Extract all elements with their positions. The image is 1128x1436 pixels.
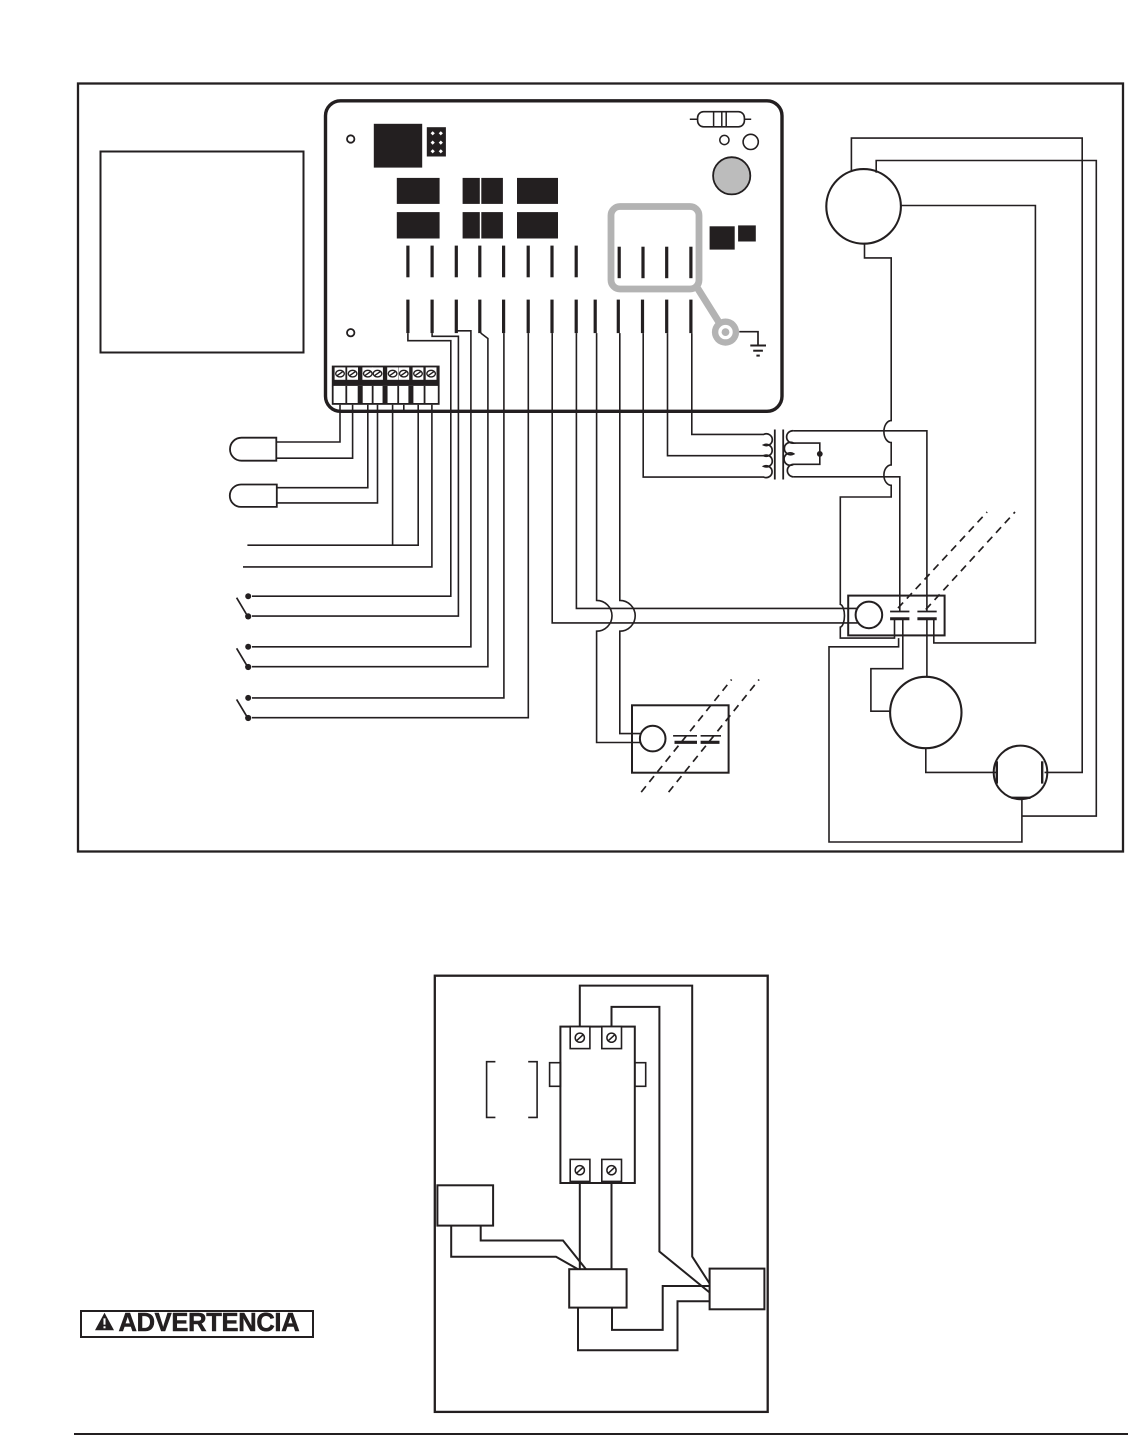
relay K2 block pair row A	[463, 178, 503, 204]
wire contactor top-left up and over to power box	[580, 986, 710, 1284]
wire terminal1 to flame-sensor lead 1 upper	[277, 405, 341, 442]
wire pin8 column to valve feed upper	[576, 409, 856, 608]
wire pin7 down	[551, 333, 553, 409]
limit switch S1 wires	[252, 409, 458, 616]
GV2 capacitor plates right	[701, 736, 721, 743]
wire pin13 to transformer primary top	[692, 409, 764, 434]
wire terminal8 long horizontal run	[243, 405, 432, 567]
wire pin11 down	[642, 333, 644, 409]
GV2 capacitor plates left	[673, 736, 697, 743]
wire terminal5 down to node	[392, 405, 394, 545]
ground symbol on board	[739, 332, 766, 356]
pin header row 1 (8 pins)	[408, 246, 576, 278]
wire terminal6 stub	[403, 405, 405, 413]
transformer T1 secondary winding	[784, 431, 794, 477]
wire pin12 to transformer primary middle	[668, 409, 765, 456]
relay K6 block row B	[517, 212, 558, 238]
IC chip right of window	[710, 226, 735, 249]
junction box lower-middle	[569, 1269, 626, 1307]
limit switch S2	[237, 644, 252, 670]
wire pin7 column to valve feed lower	[552, 409, 857, 623]
GV1 capacitor 2 plates	[917, 612, 936, 619]
contactor side tab left	[550, 1063, 561, 1087]
wire jog pin2 to switch column	[432, 333, 458, 409]
wire contactor bottom-right to junction box	[611, 1181, 613, 1269]
relay K1 block row A	[397, 178, 440, 204]
relay K4 block row B	[397, 212, 440, 238]
transformer T1 primary winding	[764, 434, 772, 478]
buzzer (gray filled circle)	[713, 157, 750, 194]
wire C1 bottom loop to GV1 node	[829, 638, 1022, 842]
transformer secondary tap loop with junction dot	[794, 443, 823, 464]
fuse F1	[690, 112, 751, 127]
wire pin8 down	[575, 333, 577, 409]
wire M1 bottom to valve capacitor 1 return (rail D with hops)	[840, 243, 894, 638]
wire junction box right to power box mid	[612, 1286, 710, 1330]
wire jog pin1 to switch column	[408, 333, 451, 409]
bracket marker right	[528, 1062, 537, 1118]
wire terminal2 to flame-sensor lead 1 lower	[277, 405, 353, 458]
GV1 actuator dashed linkage 2	[926, 512, 1015, 610]
limit switch S1	[237, 593, 252, 619]
wire M1 top-right to right rail B	[876, 161, 1096, 817]
LED indicator small circle	[720, 135, 729, 144]
mounting hole bottom-left	[347, 329, 354, 336]
wire junction box left to power box lower	[578, 1301, 710, 1350]
relay K3 block row A	[517, 178, 558, 204]
limit switch S3	[237, 695, 252, 721]
callout target circle	[712, 319, 739, 346]
connector J1 (black header with pin dots)	[427, 127, 446, 156]
wire GV1 capacitor1 to blower path	[871, 619, 903, 711]
transformer T1 core	[775, 430, 783, 480]
label box (blank legend area)	[101, 152, 304, 353]
GV2 actuator dashed linkage 1	[641, 680, 731, 793]
wire contactor top-right up and over to power box	[612, 1007, 710, 1293]
bullet connector flame sensor 2	[230, 485, 277, 507]
wire terminal4 to flame-sensor lead 2 lower	[277, 405, 378, 503]
IC U2 (large black square)	[374, 124, 422, 168]
GV2 coil circle	[640, 726, 666, 752]
limit switch S3 wires	[252, 409, 528, 718]
control board outline U1	[326, 101, 783, 412]
contactor terminal bottom-right	[602, 1159, 622, 1181]
wire contactor bottom-left to junction box	[579, 1181, 581, 1269]
page footer rule	[74, 1433, 1128, 1435]
callout handle (gray diagonal)	[697, 287, 725, 332]
GV1 actuator dashed linkage 1	[898, 512, 987, 608]
wire M2 bottom to run capacitor	[926, 748, 997, 772]
gas valve GV1 (unit valve) box	[848, 596, 944, 636]
wire jog pin4	[480, 331, 488, 409]
wire pin11 to transformer primary bottom	[643, 409, 764, 477]
gas valve GV2 (furnace valve) box	[632, 705, 729, 772]
contactor terminal top-left	[570, 1027, 590, 1049]
wire M1 right to rail C into valve capacitor 2 return	[900, 206, 1035, 643]
GV1 coil circle	[856, 602, 883, 629]
wire terminal3 to flame-sensor lead 2 upper	[277, 405, 368, 488]
contactor body	[560, 1027, 634, 1183]
wire pin12 down	[667, 333, 669, 409]
wire hop pair to furnace gas valve (with crossover loops)	[597, 409, 640, 743]
contactor terminal bottom-left	[570, 1159, 590, 1181]
run capacitor C1	[994, 746, 1048, 800]
wire M1 top-left to right rail A	[851, 138, 1082, 772]
wire transformer box lead 2 to junction box	[451, 1226, 578, 1270]
relay K5 block pair row B	[463, 212, 503, 238]
warning banner ADVERTENCIA	[80, 1310, 314, 1338]
wire pin6 down	[527, 333, 529, 409]
wire transformer box lead 1 to junction box	[481, 1226, 586, 1270]
wire secondary top to valve capacitor 2	[794, 431, 927, 612]
mounting hole top-left	[347, 135, 354, 142]
bullet connector flame sensor 1	[230, 438, 276, 461]
wire jog pin3	[456, 331, 471, 409]
GV2 actuator dashed linkage 2	[669, 680, 760, 793]
wire GV1 capacitor2 down to blower motor top	[926, 619, 928, 678]
bracket marker left	[487, 1062, 496, 1118]
transformer box lower-left	[437, 1185, 493, 1225]
small IC chip right	[738, 225, 756, 241]
wire terminal7 long horizontal run	[247, 405, 418, 545]
wire secondary bottom to valve capacitor 1	[794, 477, 900, 612]
LED indicator large circle	[743, 134, 758, 149]
pin header inside detail window (4 pins)	[619, 247, 691, 279]
wire pin10 down	[619, 333, 621, 409]
terminal block TB1	[332, 366, 440, 405]
wire pin5 down	[503, 333, 505, 409]
detail window (gray rounded callout box)	[611, 207, 699, 290]
wire pin13 down	[691, 333, 693, 409]
blower motor M2	[890, 677, 961, 748]
outer box of lower diagram	[435, 976, 768, 1412]
inducer motor M1	[826, 169, 901, 244]
GV1 capacitor 1 plates	[890, 612, 909, 619]
wire pin9 down	[596, 333, 598, 409]
outer frame of upper wiring diagram	[78, 84, 1123, 852]
limit switch S2 wires	[252, 409, 488, 667]
contactor terminal top-right	[602, 1027, 622, 1049]
pin header row 2 (13 pins)	[408, 300, 691, 334]
power box lower-right	[710, 1269, 765, 1310]
contactor side tab right	[635, 1063, 646, 1087]
